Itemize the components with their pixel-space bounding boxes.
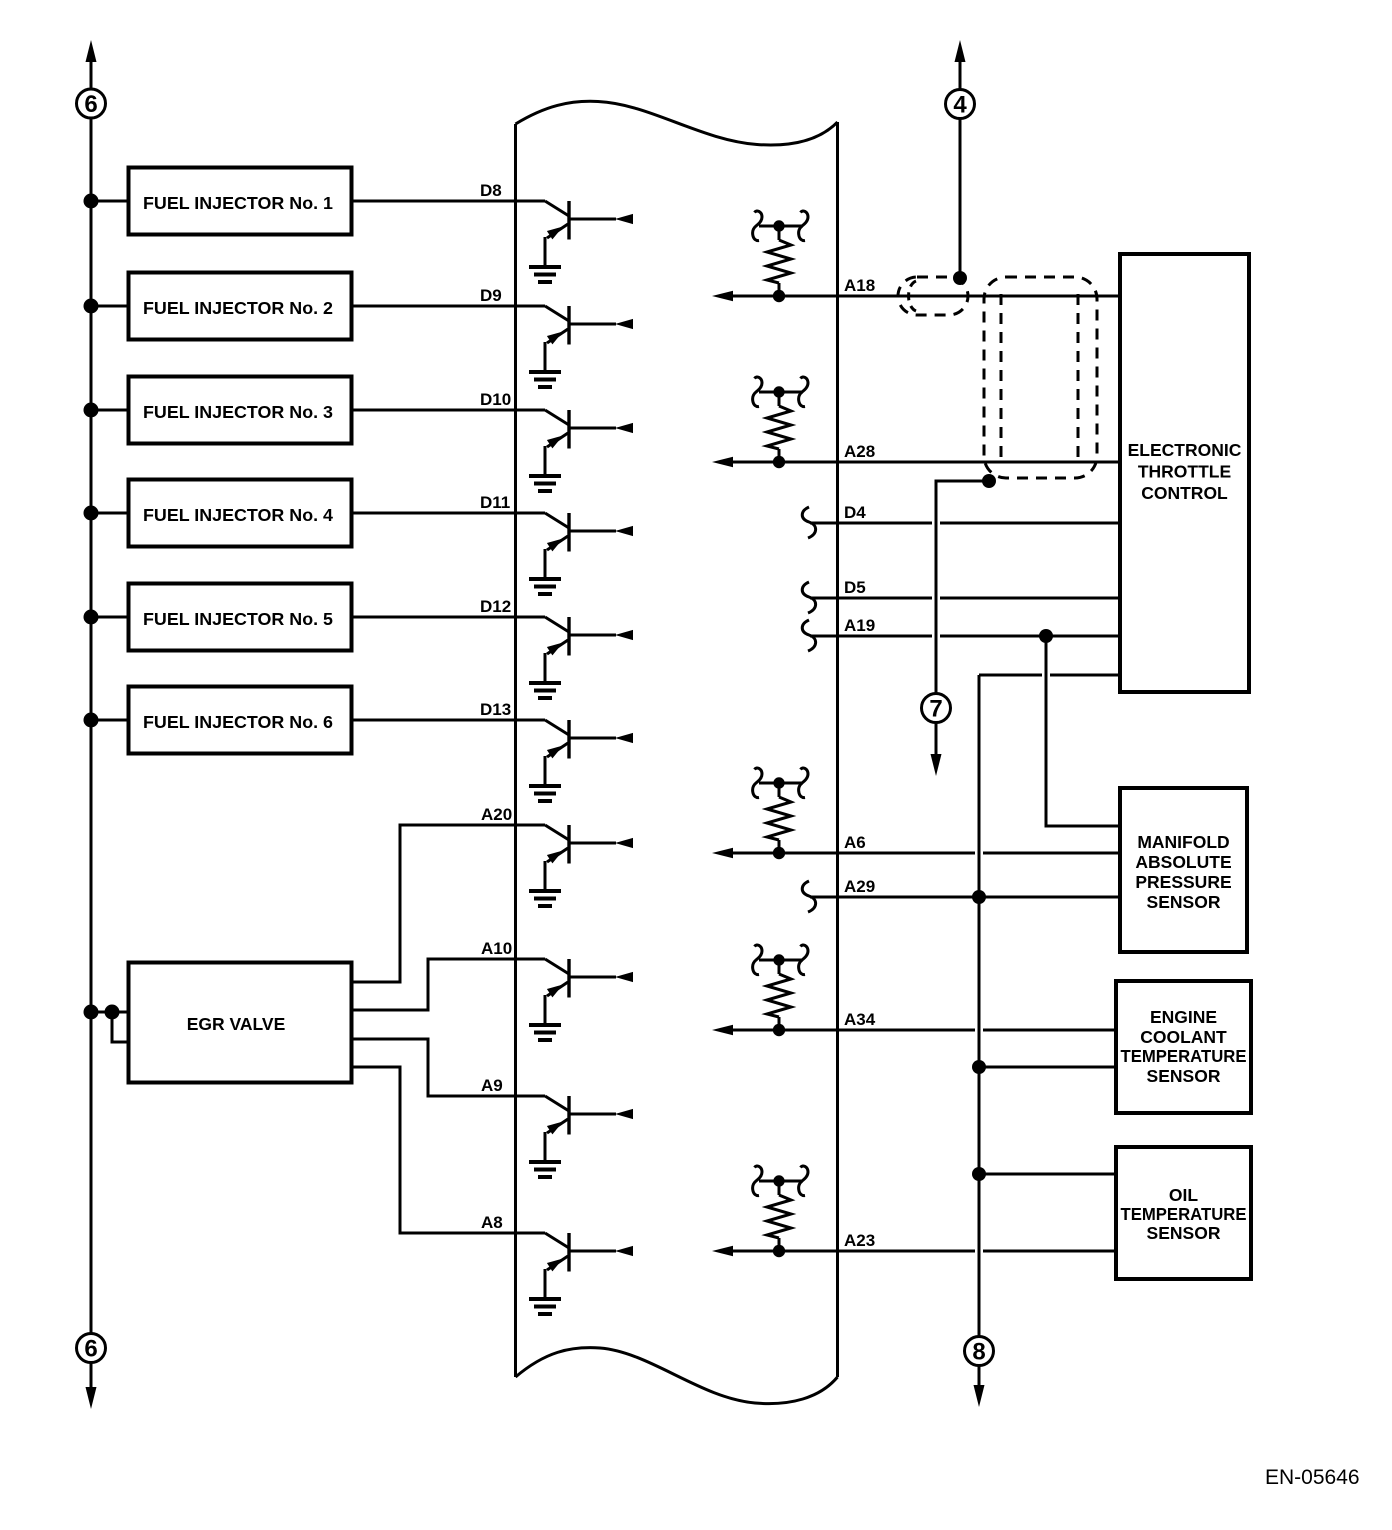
wire bus to injector 1 [91, 200, 129, 203]
junction A19 to MAP sensor [1039, 629, 1053, 643]
svg-text:EGR VALVE: EGR VALVE [187, 1014, 286, 1034]
wire A29 [810, 896, 1120, 899]
svg-text:ABSOLUTE: ABSOLUTE [1135, 852, 1231, 872]
transistor Q7 (A20) [545, 825, 633, 891]
svg-text:A10: A10 [481, 939, 512, 958]
wire EGR to A10 [352, 959, 546, 1010]
ground below Q1 [529, 267, 561, 282]
svg-text:A18: A18 [844, 276, 875, 295]
ground below Q6 [529, 786, 561, 801]
ECM right edge [836, 122, 839, 1377]
wire bus to injector 3 [91, 409, 129, 412]
arrow below circle 7 [931, 754, 942, 776]
svg-text:FUEL INJECTOR No. 2: FUEL INJECTOR No. 2 [143, 298, 333, 318]
junction bus to injector 4 [84, 506, 99, 521]
wire D10 injector 3 to transistor [352, 409, 546, 412]
connector circle 6 bottom [77, 1334, 106, 1363]
ground below Q4 [529, 579, 561, 594]
break mark A29 [802, 881, 815, 912]
svg-text:COOLANT: COOLANT [1140, 1027, 1227, 1047]
wire bus bottom segment [90, 1363, 93, 1389]
resistor pull-up on A18 [753, 211, 808, 302]
oil temperature sensor box [1116, 1147, 1251, 1279]
ground below Q5 [529, 683, 561, 698]
svg-text:EN-05646: EN-05646 [1265, 1466, 1360, 1489]
svg-text:D11: D11 [480, 493, 510, 512]
svg-text:FUEL INJECTOR No. 6: FUEL INJECTOR No. 6 [143, 712, 333, 732]
wire bus to injector 5 [91, 616, 129, 619]
fuel injector no.6 box [129, 687, 352, 754]
wire bus top segment [90, 60, 93, 89]
arrow A18 [712, 291, 733, 301]
svg-text:A8: A8 [481, 1213, 503, 1232]
wire D8 injector 1 to transistor [352, 200, 546, 203]
svg-text:D9: D9 [480, 286, 502, 305]
svg-text:D10: D10 [480, 390, 511, 409]
svg-text:D4: D4 [844, 503, 866, 522]
wire A19 [810, 635, 932, 638]
wire D5 [810, 597, 932, 600]
svg-text:7: 7 [929, 696, 942, 723]
wire left power bus [90, 118, 93, 1334]
svg-text:D12: D12 [480, 597, 511, 616]
fuel injector no.5 box [129, 584, 352, 651]
wire D12 injector 5 to transistor [352, 616, 546, 619]
junction EGR second feed [105, 1005, 120, 1020]
svg-text:D5: D5 [844, 578, 866, 597]
transistor Q4 (D11) [545, 513, 633, 579]
junction bus to injector 3 [84, 403, 99, 418]
wire A18 [733, 295, 1120, 298]
wire EGR to A8 [352, 1067, 546, 1233]
svg-text:CONTROL: CONTROL [1141, 483, 1228, 503]
arrow A23 [712, 1246, 733, 1256]
arrow below circle 8 [974, 1385, 985, 1407]
svg-text:A9: A9 [481, 1076, 503, 1095]
wire bus to EGR pin1 [91, 1011, 129, 1014]
wire below circle 7 [935, 723, 938, 755]
electronic throttle control box [1120, 254, 1249, 692]
connector circle 4 arrow [955, 40, 966, 62]
transistor Q5 (D12) [545, 617, 633, 683]
resistor pull-up on A34 [753, 945, 808, 1036]
junction bus to injector 2 [84, 299, 99, 314]
ECM bottom torn edge [516, 1348, 838, 1404]
wire A34 [733, 1029, 975, 1032]
shield inner left edge [1000, 294, 1003, 462]
svg-text:A34: A34 [844, 1010, 876, 1029]
wire bus to injector 2 [91, 305, 129, 308]
resistor pull-up on A6 [753, 768, 808, 859]
svg-text:A28: A28 [844, 442, 875, 461]
fuel injector no.2 box [129, 273, 352, 340]
connector circle 7 [922, 694, 951, 723]
svg-text:MANIFOLD: MANIFOLD [1137, 832, 1229, 852]
wire ETC ground return segment left [979, 674, 1042, 677]
junction shield to ground wire [982, 474, 996, 488]
svg-text:A6: A6 [844, 833, 866, 852]
svg-text:FUEL INJECTOR No. 5: FUEL INJECTOR No. 5 [143, 609, 333, 629]
fuel injector no.1 box [129, 168, 352, 235]
fuel injector no.4 box [129, 480, 352, 547]
junction OIL return [972, 1167, 986, 1181]
svg-text:TEMPERATURE: TEMPERATURE [1121, 1046, 1247, 1066]
arrow A28 [712, 457, 733, 467]
engine coolant temperature sensor box [1116, 981, 1251, 1113]
shield inner right edge [1077, 294, 1080, 462]
svg-text:8: 8 [972, 1339, 985, 1366]
wire D9 injector 2 to transistor [352, 305, 546, 308]
wire A28 [733, 461, 1120, 464]
manifold absolute pressure sensor box [1120, 788, 1247, 952]
junction bus to injector 6 [84, 713, 99, 728]
fuel injector no.3 box [129, 377, 352, 444]
shield small loop on A18 [909, 281, 917, 311]
transistor Q8 (A10) [545, 959, 633, 1025]
svg-text:FUEL INJECTOR No. 4: FUEL INJECTOR No. 4 [143, 505, 333, 525]
wire below circle 8 [978, 1366, 981, 1387]
svg-text:A23: A23 [844, 1231, 875, 1250]
svg-text:FUEL INJECTOR No. 3: FUEL INJECTOR No. 3 [143, 402, 333, 422]
wire sensor return vertical [978, 675, 981, 1337]
junction bus to EGR valve [84, 1005, 99, 1020]
EGR valve box [129, 963, 352, 1083]
svg-text:OIL: OIL [1169, 1185, 1198, 1205]
svg-text:A29: A29 [844, 877, 875, 896]
transistor Q3 (D10) [545, 410, 633, 476]
wire EGR to A20 [352, 825, 546, 982]
transistor Q6 (D13) [545, 720, 633, 786]
svg-text:SENSOR: SENSOR [1147, 1066, 1221, 1086]
resistor pull-up on A23 [753, 1166, 808, 1257]
ground below Q8 [529, 1025, 561, 1040]
wire shield to circle 7 [936, 481, 989, 694]
junction bus to injector 5 [84, 610, 99, 625]
ground below Q9 [529, 1162, 561, 1177]
svg-text:ENGINE: ENGINE [1150, 1007, 1217, 1027]
break mark A19 [802, 620, 815, 651]
junction shield drain [953, 271, 967, 285]
break mark D5 [802, 582, 815, 613]
svg-text:A20: A20 [481, 805, 512, 824]
svg-text:THROTTLE: THROTTLE [1138, 462, 1231, 482]
connector circle 6 top [77, 89, 106, 118]
transistor Q9 (A9) [545, 1096, 633, 1162]
wire A23 [733, 1250, 975, 1253]
svg-text:ELECTRONIC: ELECTRONIC [1128, 440, 1242, 460]
wire above circle 4 [959, 60, 962, 90]
wire bus to injector 4 [91, 512, 129, 515]
wire EGR to A9 [352, 1039, 546, 1096]
connector circle 4 [946, 90, 975, 119]
svg-text:SENSOR: SENSOR [1147, 1223, 1221, 1243]
svg-text:PRESSURE: PRESSURE [1135, 872, 1231, 892]
connector circle 8 [965, 1337, 994, 1366]
ECM top torn edge [516, 101, 838, 145]
svg-text:6: 6 [84, 1336, 97, 1363]
ground below Q7 [529, 891, 561, 906]
left power bus arrow top [86, 40, 97, 62]
wire D13 injector 6 to transistor [352, 719, 546, 722]
wire EGR second feed [112, 1012, 129, 1042]
svg-text:D8: D8 [480, 181, 502, 200]
svg-text:TEMPERATURE: TEMPERATURE [1121, 1204, 1247, 1224]
svg-text:SENSOR: SENSOR [1147, 892, 1221, 912]
wire circle 4 to shield [959, 119, 962, 278]
wire D4 [810, 522, 932, 525]
transistor Q1 (D8) [545, 201, 633, 267]
arrow A34 [712, 1025, 733, 1035]
svg-text:4: 4 [953, 92, 967, 119]
svg-text:FUEL INJECTOR No. 1: FUEL INJECTOR No. 1 [143, 193, 333, 213]
svg-text:6: 6 [84, 91, 97, 118]
wire A19 branch to MAP sensor [1046, 636, 1120, 826]
wire ETC ground return segment right [1050, 674, 1120, 677]
svg-text:A19: A19 [844, 616, 875, 635]
break mark D4 [802, 507, 815, 538]
transistor Q10 (A8) [545, 1233, 633, 1299]
shield outer loop around A18 A28 [984, 277, 1097, 478]
arrow A6 [712, 848, 733, 858]
junction A29 to return line [972, 890, 986, 904]
ground below Q10 [529, 1299, 561, 1314]
transistor Q2 (D9) [545, 306, 633, 372]
junction ECT return [972, 1060, 986, 1074]
svg-text:D13: D13 [480, 700, 511, 719]
wire bus to injector 6 [91, 719, 129, 722]
ground below Q3 [529, 476, 561, 491]
wire ECT sensor return [979, 1066, 1116, 1069]
ECM left edge [514, 124, 517, 1377]
left power bus arrow bottom [86, 1387, 97, 1409]
junction bus to injector 1 [84, 194, 99, 209]
resistor pull-up on A28 [753, 377, 808, 468]
wire OIL sensor return [979, 1173, 1116, 1176]
wire D11 injector 4 to transistor [352, 512, 546, 515]
wire A6 [733, 852, 975, 855]
ground below Q2 [529, 372, 561, 387]
